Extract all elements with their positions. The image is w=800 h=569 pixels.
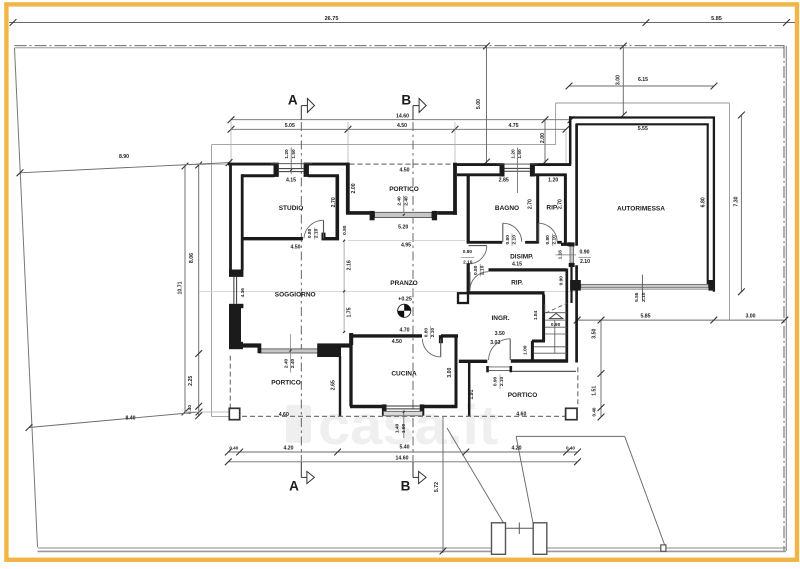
north outer wall leaf (studio) bbox=[228, 163, 275, 166]
dimension 5.72 vertical to fence bbox=[442, 417, 444, 553]
svg-text:4.60: 4.60 bbox=[279, 412, 289, 418]
bagno door arc bbox=[502, 223, 504, 242]
svg-text:PORTICO: PORTICO bbox=[508, 392, 538, 399]
svg-text:2.00: 2.00 bbox=[540, 133, 546, 143]
extension lines from top dims to house bbox=[230, 121, 232, 162]
svg-text:2.85: 2.85 bbox=[499, 178, 509, 184]
disimp NE corner wall bbox=[561, 243, 570, 246]
svg-text:2.40: 2.40 bbox=[283, 359, 289, 369]
svg-text:0.40: 0.40 bbox=[591, 407, 596, 416]
svg-text:5.40: 5.40 bbox=[399, 444, 409, 450]
svg-text:5.85: 5.85 bbox=[640, 313, 650, 319]
east service door dims bbox=[556, 254, 577, 256]
studio bottom wall bbox=[242, 237, 303, 240]
studio window bbox=[274, 163, 279, 177]
portico-right west wall bbox=[468, 362, 471, 416]
pranzo south / cucina north wall bbox=[349, 334, 422, 337]
svg-text:0.80: 0.80 bbox=[505, 235, 511, 245]
svg-text:2.70: 2.70 bbox=[558, 199, 564, 209]
svg-text:STUDIO: STUDIO bbox=[279, 205, 304, 212]
svg-text:2.10: 2.10 bbox=[463, 259, 473, 265]
rip2 door leaf+arc bbox=[469, 272, 471, 291]
svg-text:5.85: 5.85 bbox=[711, 16, 722, 22]
section marker B bottom bbox=[412, 462, 414, 478]
rip2 bottom / ingresso top wall bbox=[467, 291, 545, 294]
dimension 26.75 / 5.85 top line bbox=[9, 22, 795, 24]
svg-text:AUTORIMESSA: AUTORIMESSA bbox=[617, 206, 665, 213]
dimension 8.90 slanted to boundary bbox=[20, 163, 229, 173]
svg-text:3.50: 3.50 bbox=[591, 329, 597, 339]
pranzo column dims 2.16/1.75 bbox=[343, 241, 345, 332]
dimension 3.00 vertical garage to boundary bbox=[622, 46, 624, 115]
svg-text:7.30: 7.30 bbox=[734, 196, 740, 206]
ingresso bottom wall bbox=[532, 340, 545, 343]
portico step edge line bbox=[512, 370, 576, 372]
svg-text:2.16: 2.16 bbox=[347, 260, 353, 270]
svg-text:INGR.: INGR. bbox=[491, 315, 509, 322]
garage east inner wall bbox=[707, 124, 709, 288]
svg-text:8.06: 8.06 bbox=[189, 253, 195, 263]
level symbol +0.25 bbox=[398, 304, 411, 317]
bagno north inner wall leaf bbox=[457, 173, 500, 176]
cucina window bbox=[382, 404, 387, 415]
garage north inner wall bbox=[576, 123, 709, 125]
walkway edge left bbox=[447, 428, 503, 523]
bagno window dim 1.20/1.50 bbox=[516, 148, 518, 194]
studio/soggiorno west inner leaf bbox=[241, 174, 244, 270]
svg-text:14.60: 14.60 bbox=[396, 455, 409, 461]
extension line soggiorno window level bbox=[199, 291, 575, 293]
soggiorno S window dim 2.40/2.40 bbox=[290, 334, 292, 373]
driveway trapezoid bbox=[516, 436, 533, 522]
cucina window dim 1.40/1.50 bbox=[403, 410, 405, 438]
svg-text:1.51: 1.51 bbox=[591, 386, 597, 396]
cucina east wall bbox=[455, 337, 458, 408]
svg-text:4.20: 4.20 bbox=[511, 446, 521, 452]
roof overhang outline west bbox=[211, 145, 213, 417]
front door leaf+arc bbox=[509, 339, 511, 360]
svg-text:2.25: 2.25 bbox=[188, 376, 194, 386]
svg-text:3.00: 3.00 bbox=[447, 367, 453, 377]
svg-text:1.00: 1.00 bbox=[522, 345, 528, 355]
svg-text:2.40: 2.40 bbox=[290, 359, 296, 369]
property boundary right bbox=[783, 46, 785, 551]
svg-text:2.70: 2.70 bbox=[528, 199, 534, 209]
svg-text:PORTICO: PORTICO bbox=[389, 186, 419, 193]
studio door arc bbox=[323, 220, 325, 238]
rip door arc bbox=[537, 223, 539, 242]
svg-text:3.00: 3.00 bbox=[745, 313, 755, 319]
svg-text:1.91: 1.91 bbox=[469, 389, 475, 399]
svg-text:1.16: 1.16 bbox=[558, 250, 564, 260]
svg-text:1.50: 1.50 bbox=[291, 149, 297, 159]
gate leaf bbox=[506, 527, 534, 529]
portico dashed west edge bbox=[229, 356, 231, 408]
svg-text:CUCINA: CUCINA bbox=[391, 371, 417, 378]
svg-text:0.40: 0.40 bbox=[229, 446, 238, 451]
rip2 left wall bbox=[467, 264, 470, 294]
portico dashed south edge bbox=[242, 415, 565, 417]
svg-text:BAGNO: BAGNO bbox=[495, 205, 519, 212]
extension line top-left corner bbox=[182, 164, 229, 166]
portico dashed east edge bbox=[577, 367, 579, 407]
studio window dim 1.20/1.50 bbox=[290, 148, 292, 175]
portico west wall bbox=[346, 163, 350, 214]
west outer wall leaf bbox=[229, 163, 232, 271]
svg-text:4.70: 4.70 bbox=[399, 327, 409, 333]
svg-text:0.80: 0.80 bbox=[423, 328, 429, 338]
svg-text:26.75: 26.75 bbox=[325, 16, 339, 22]
svg-text:5.72: 5.72 bbox=[434, 482, 440, 492]
svg-text:4.50: 4.50 bbox=[397, 123, 407, 129]
svg-text:1.20: 1.20 bbox=[284, 149, 290, 159]
gate post left bbox=[492, 523, 506, 555]
gate post right bbox=[533, 523, 547, 555]
studio door jamb bbox=[322, 233, 326, 241]
portico-pranzo window band bbox=[375, 212, 432, 217]
svg-text:0.90: 0.90 bbox=[558, 276, 564, 286]
stair west corner wall bbox=[531, 341, 534, 360]
property boundary left (slanted) bbox=[15, 48, 38, 547]
garage door band bbox=[581, 284, 709, 288]
svg-text:0.40: 0.40 bbox=[566, 446, 575, 451]
svg-text:8.40: 8.40 bbox=[125, 415, 135, 421]
east service door band bbox=[570, 246, 574, 263]
pranzo 4.95 extension bbox=[348, 240, 465, 242]
disimp-pranzo door leaf bbox=[469, 245, 487, 247]
svg-text:4.75: 4.75 bbox=[508, 123, 518, 129]
svg-text:8.90: 8.90 bbox=[119, 154, 129, 160]
portico south wall east segment bbox=[437, 211, 457, 215]
svg-text:0.90: 0.90 bbox=[493, 377, 499, 387]
svg-text:2.00: 2.00 bbox=[351, 183, 357, 193]
roof overhang sw corner to porch bbox=[212, 415, 230, 417]
portico SE pillar bbox=[566, 408, 577, 419]
dimension 14.60 line above house bbox=[231, 119, 571, 121]
svg-text:4.50: 4.50 bbox=[399, 168, 409, 174]
svg-text:10.71: 10.71 bbox=[177, 281, 183, 294]
svg-text:14.60: 14.60 bbox=[396, 114, 409, 120]
svg-text:4.36: 4.36 bbox=[240, 288, 246, 298]
property boundary top (dash-dot + solid) bbox=[15, 45, 785, 47]
dimension 3.50/1.51/0.40 vertical right bbox=[600, 320, 602, 417]
svg-text:RIP.: RIP. bbox=[546, 204, 558, 211]
svg-text:B: B bbox=[401, 478, 411, 493]
svg-text:4.15: 4.15 bbox=[512, 262, 522, 268]
junction block soggiorno-cucina bbox=[317, 343, 341, 357]
garage west outer wall bbox=[569, 116, 572, 164]
portico(top) north dashed edge bbox=[350, 163, 456, 165]
east house wall outer leaf bbox=[575, 124, 578, 246]
dimension 6.15 garage top bbox=[569, 85, 714, 87]
garage north outer wall bbox=[569, 116, 715, 118]
svg-text:0.90: 0.90 bbox=[551, 322, 561, 328]
svg-text:SOGGIORNO: SOGGIORNO bbox=[275, 291, 316, 298]
svg-text:DISIMP.: DISIMP. bbox=[510, 253, 534, 260]
svg-text:0.80: 0.80 bbox=[342, 225, 348, 235]
rip east wall bbox=[564, 174, 567, 244]
section marker A top bbox=[300, 106, 302, 120]
svg-text:2.10: 2.10 bbox=[641, 292, 647, 302]
svg-text:5.55: 5.55 bbox=[634, 292, 640, 302]
svg-text:1.50: 1.50 bbox=[517, 149, 523, 159]
pillar pranzo/ingresso bbox=[458, 293, 468, 303]
svg-text:1.20: 1.20 bbox=[510, 149, 516, 159]
soggiorno SW corner block bbox=[229, 342, 243, 349]
ingresso east wall bbox=[542, 295, 545, 342]
fence post bbox=[661, 545, 666, 551]
garage paving outline bbox=[555, 103, 557, 145]
property boundary bottom fence bbox=[38, 547, 492, 549]
section line B bbox=[412, 122, 414, 461]
cucina door jamb bbox=[439, 335, 443, 343]
bagno bottom wall segments bbox=[467, 241, 503, 244]
bagno north outer wall leaf bbox=[453, 163, 500, 166]
svg-text:1.84: 1.84 bbox=[533, 311, 539, 321]
svg-text:PORTICO: PORTICO bbox=[271, 380, 301, 387]
svg-text:A: A bbox=[288, 92, 298, 107]
bagno window bbox=[500, 163, 505, 176]
svg-text:2.10: 2.10 bbox=[580, 259, 590, 265]
svg-text:0.80: 0.80 bbox=[463, 249, 473, 255]
svg-text:4.50: 4.50 bbox=[290, 245, 300, 251]
portico south wall west segment bbox=[346, 211, 370, 215]
dimension 0.40/4.20/5.40/4.20/0.40 bottom bbox=[228, 451, 577, 453]
svg-text:4.50: 4.50 bbox=[392, 339, 402, 345]
svg-text:+0.25: +0.25 bbox=[398, 296, 412, 302]
garage east outer wall bbox=[713, 117, 715, 292]
garage SW corner block bbox=[570, 280, 581, 291]
svg-text:6.80: 6.80 bbox=[700, 197, 706, 207]
portico east wall bbox=[453, 163, 457, 215]
dimension 5.85/3.00 right of house bbox=[577, 319, 785, 321]
front door threshold bbox=[487, 366, 511, 368]
svg-text:5.00: 5.00 bbox=[476, 99, 482, 109]
dimension 8.40 slanted to boundary bbox=[29, 412, 199, 428]
bagno west wall bbox=[467, 174, 470, 244]
svg-text:2.65: 2.65 bbox=[331, 380, 337, 390]
portico east outer leaf (cucina west) bbox=[339, 356, 341, 416]
dimension 14.60 bottom bbox=[228, 461, 577, 463]
svg-text:6.15: 6.15 bbox=[638, 77, 648, 83]
svg-text:1.50: 1.50 bbox=[401, 424, 407, 434]
studio inner top wall bbox=[242, 174, 275, 177]
dimension 10.71 left bbox=[184, 166, 186, 412]
svg-text:B: B bbox=[401, 92, 411, 107]
svg-text:3.00: 3.00 bbox=[616, 75, 622, 85]
soggiorno west window bbox=[229, 270, 243, 277]
svg-text:A: A bbox=[289, 478, 299, 493]
svg-text:5.20: 5.20 bbox=[398, 224, 408, 230]
west wall solid block below soggiorno window bbox=[229, 307, 241, 348]
cucina west inner wall bbox=[349, 337, 352, 407]
svg-text:4.15: 4.15 bbox=[286, 178, 296, 184]
svg-text:1.20: 1.20 bbox=[548, 178, 558, 184]
svg-text:4.60: 4.60 bbox=[516, 411, 526, 417]
cucina south wall bbox=[350, 405, 384, 408]
roof overhang outline north bbox=[212, 144, 556, 146]
svg-text:4.20: 4.20 bbox=[283, 446, 293, 452]
rip2 top wall bbox=[489, 268, 567, 271]
svg-text:RIP.: RIP. bbox=[511, 279, 523, 286]
svg-text:4.95: 4.95 bbox=[401, 243, 411, 249]
east house wall inner leaf bbox=[565, 269, 568, 363]
svg-text:0.80: 0.80 bbox=[473, 265, 479, 275]
portico SW pillar bbox=[229, 408, 239, 419]
svg-text:5.55: 5.55 bbox=[638, 126, 648, 132]
pranzo window dim 2.40/2.40 bbox=[403, 196, 405, 213]
section line A bbox=[300, 122, 302, 461]
svg-text:0.80: 0.80 bbox=[307, 228, 313, 238]
dimension 5.05/4.50/4.75 line bbox=[231, 128, 566, 130]
cucina door leaf+arc bbox=[440, 339, 442, 357]
svg-text:3.50: 3.50 bbox=[495, 331, 505, 337]
south wall of entrance bbox=[459, 360, 488, 363]
dimension 8.06/2.25/0.40 left bbox=[198, 165, 200, 416]
dimension 7.30 garage right bbox=[740, 115, 742, 292]
section marker A bottom bbox=[300, 462, 302, 478]
garage SE corner block bbox=[709, 280, 714, 291]
svg-text:5.05: 5.05 bbox=[285, 123, 295, 129]
svg-text:2.70: 2.70 bbox=[331, 197, 337, 207]
svg-text:PRANZO: PRANZO bbox=[390, 280, 417, 287]
dimension 5.00 vertical bbox=[486, 46, 488, 163]
studio right wall bbox=[335, 176, 339, 241]
svg-text:3.03: 3.03 bbox=[490, 340, 500, 346]
svg-text:2.40: 2.40 bbox=[403, 196, 409, 206]
soggiorno south wall bbox=[230, 343, 258, 347]
dimension 2.00 vertical bbox=[544, 120, 546, 163]
east wall middle leaf below service door bbox=[570, 267, 572, 303]
svg-text:2.40: 2.40 bbox=[396, 196, 402, 206]
soggiorno south window band bbox=[260, 349, 319, 353]
svg-text:1.75: 1.75 bbox=[347, 307, 353, 317]
section marker B top bbox=[412, 106, 414, 120]
garage door dim 5.55/2.10 bbox=[641, 275, 643, 300]
watermark bbox=[286, 393, 498, 456]
bagno/rip divider wall bbox=[536, 174, 539, 244]
svg-text:0.90: 0.90 bbox=[579, 249, 589, 255]
svg-text:1.40: 1.40 bbox=[394, 424, 400, 434]
svg-text:0.80: 0.80 bbox=[545, 235, 551, 245]
stairs bbox=[534, 304, 567, 354]
